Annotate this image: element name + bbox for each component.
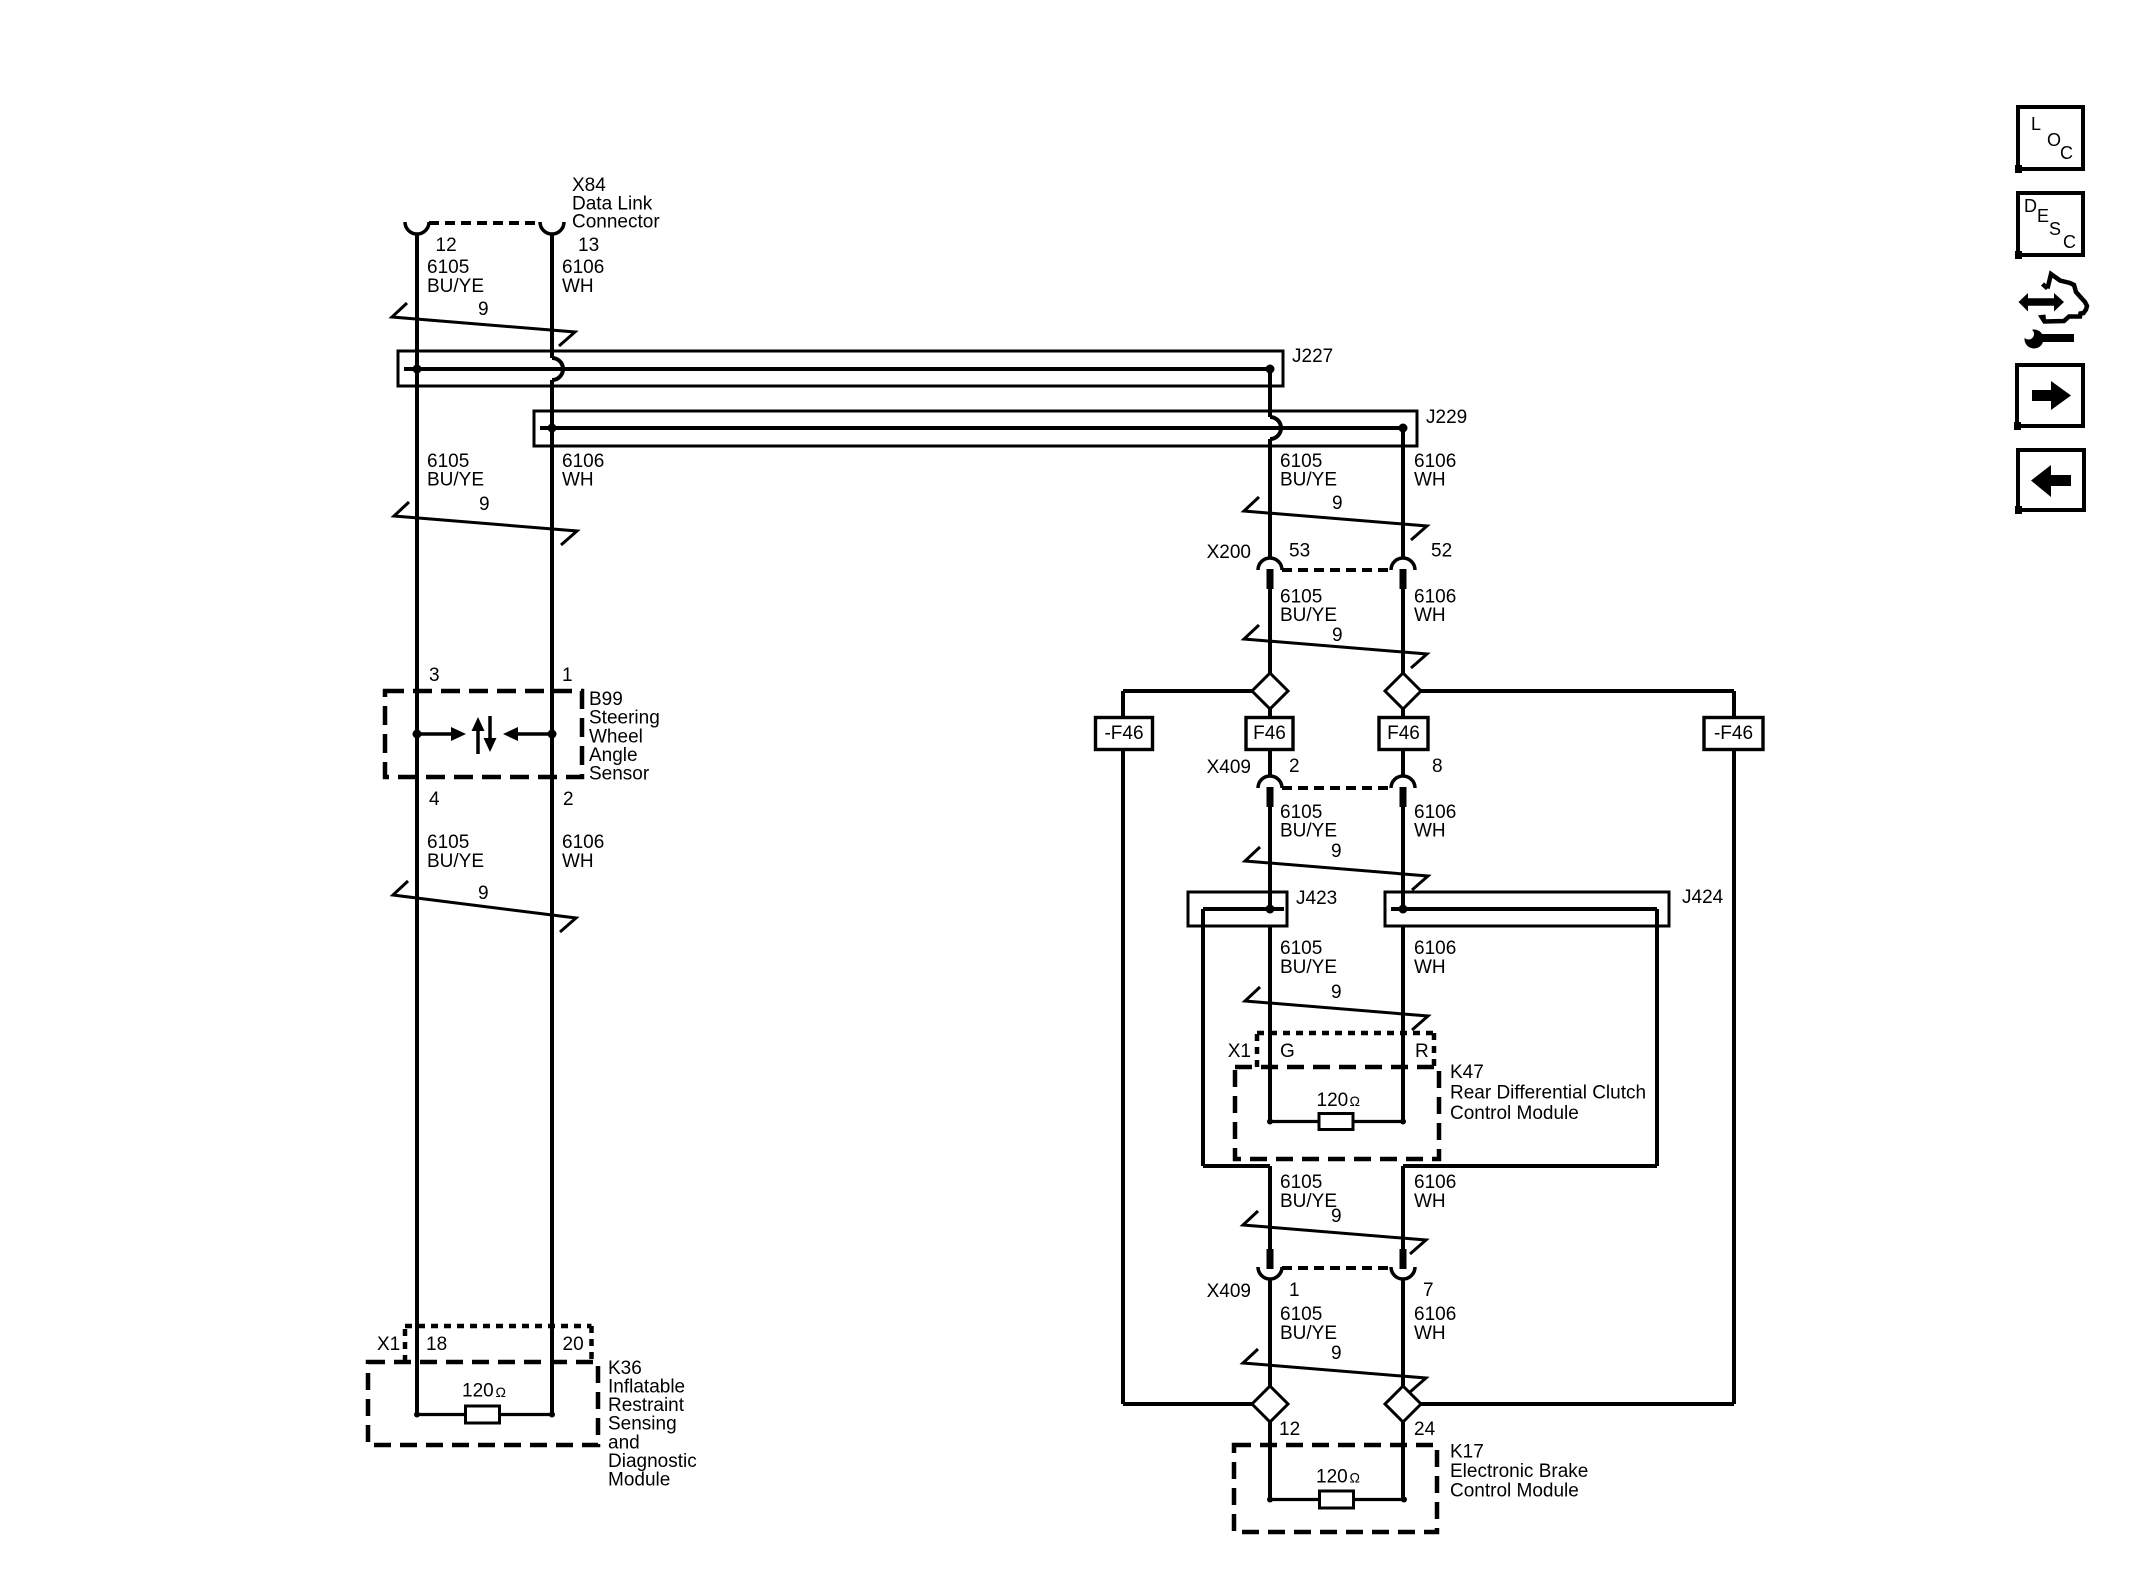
svg-text:8: 8 bbox=[1432, 756, 1443, 777]
svg-text:9: 9 bbox=[479, 494, 490, 515]
svg-text:1: 1 bbox=[1289, 1280, 1300, 1301]
svg-text:9: 9 bbox=[1331, 841, 1342, 862]
svg-text:Control Module: Control Module bbox=[1450, 1103, 1579, 1124]
svg-text:6105: 6105 bbox=[1280, 1304, 1322, 1325]
svg-text:Ω: Ω bbox=[1350, 1093, 1360, 1109]
svg-text:6106: 6106 bbox=[562, 257, 604, 278]
svg-text:WH: WH bbox=[562, 276, 594, 297]
svg-text:20: 20 bbox=[563, 1334, 584, 1355]
svg-text:120: 120 bbox=[462, 1380, 494, 1401]
svg-text:BU/YE: BU/YE bbox=[427, 851, 484, 872]
svg-text:E: E bbox=[2037, 206, 2049, 226]
svg-text:9: 9 bbox=[1331, 1206, 1342, 1227]
svg-text:52: 52 bbox=[1431, 540, 1452, 561]
svg-text:Sensor: Sensor bbox=[589, 764, 650, 785]
svg-text:9: 9 bbox=[478, 299, 489, 320]
svg-text:F46: F46 bbox=[1253, 723, 1286, 744]
svg-text:D: D bbox=[2024, 196, 2037, 216]
svg-text:K17: K17 bbox=[1450, 1441, 1484, 1462]
svg-text:WH: WH bbox=[1414, 1191, 1446, 1212]
svg-text:BU/YE: BU/YE bbox=[1280, 1323, 1337, 1344]
svg-text:Electronic Brake: Electronic Brake bbox=[1450, 1461, 1588, 1482]
svg-text:C: C bbox=[2060, 143, 2073, 163]
svg-text:2: 2 bbox=[1289, 756, 1300, 777]
svg-text:6106: 6106 bbox=[1414, 938, 1456, 959]
svg-text:Connector: Connector bbox=[572, 211, 660, 232]
svg-text:BU/YE: BU/YE bbox=[1280, 957, 1337, 978]
svg-text:120: 120 bbox=[1316, 1466, 1348, 1487]
svg-text:9: 9 bbox=[478, 883, 489, 904]
svg-text:BU/YE: BU/YE bbox=[1280, 605, 1337, 626]
svg-text:Ω: Ω bbox=[1350, 1470, 1360, 1486]
svg-text:X1: X1 bbox=[377, 1334, 400, 1355]
svg-text:6105: 6105 bbox=[427, 832, 469, 853]
svg-text:C: C bbox=[2063, 232, 2076, 252]
svg-text:BU/YE: BU/YE bbox=[1280, 820, 1337, 841]
svg-text:S: S bbox=[2049, 219, 2061, 239]
svg-text:Rear Differential Clutch: Rear Differential Clutch bbox=[1450, 1082, 1646, 1103]
svg-text:6105: 6105 bbox=[1280, 938, 1322, 959]
svg-text:BU/YE: BU/YE bbox=[1280, 1191, 1337, 1212]
svg-text:WH: WH bbox=[562, 851, 594, 872]
svg-text:G: G bbox=[1280, 1041, 1295, 1062]
svg-text:J424: J424 bbox=[1682, 887, 1724, 908]
svg-text:WH: WH bbox=[1414, 957, 1446, 978]
svg-text:6106: 6106 bbox=[562, 832, 604, 853]
svg-text:X1: X1 bbox=[1228, 1041, 1251, 1062]
svg-text:Control Module: Control Module bbox=[1450, 1480, 1579, 1501]
svg-text:X409: X409 bbox=[1207, 1281, 1251, 1302]
svg-text:2: 2 bbox=[563, 789, 574, 810]
svg-text:BU/YE: BU/YE bbox=[427, 469, 484, 490]
svg-text:R: R bbox=[1415, 1041, 1429, 1062]
svg-text:3: 3 bbox=[429, 665, 440, 686]
svg-text:9: 9 bbox=[1332, 625, 1343, 646]
svg-text:Ω: Ω bbox=[496, 1384, 506, 1400]
svg-text:J423: J423 bbox=[1296, 888, 1337, 909]
svg-text:WH: WH bbox=[1414, 1323, 1446, 1344]
svg-text:4: 4 bbox=[429, 789, 440, 810]
svg-text:L: L bbox=[2031, 114, 2041, 134]
svg-text:1: 1 bbox=[562, 665, 573, 686]
svg-text:J229: J229 bbox=[1426, 407, 1467, 428]
svg-text:6106: 6106 bbox=[1414, 1172, 1456, 1193]
svg-text:6105: 6105 bbox=[427, 257, 469, 278]
svg-text:12: 12 bbox=[1279, 1419, 1300, 1440]
svg-text:X409: X409 bbox=[1207, 757, 1251, 778]
svg-text:120: 120 bbox=[1317, 1090, 1349, 1111]
svg-text:9: 9 bbox=[1331, 1343, 1342, 1364]
svg-text:12: 12 bbox=[436, 235, 457, 256]
svg-text:J227: J227 bbox=[1292, 346, 1333, 367]
svg-text:WH: WH bbox=[1414, 820, 1446, 841]
svg-text:53: 53 bbox=[1289, 540, 1310, 561]
svg-text:9: 9 bbox=[1331, 982, 1342, 1003]
svg-text:13: 13 bbox=[578, 235, 599, 256]
svg-text:X200: X200 bbox=[1207, 542, 1251, 563]
svg-text:BU/YE: BU/YE bbox=[427, 276, 484, 297]
svg-text:-F46: -F46 bbox=[1714, 723, 1753, 744]
svg-text:6106: 6106 bbox=[1414, 1304, 1456, 1325]
svg-text:18: 18 bbox=[426, 1334, 447, 1355]
svg-text:9: 9 bbox=[1332, 493, 1343, 514]
svg-text:-F46: -F46 bbox=[1104, 723, 1143, 744]
svg-text:WH: WH bbox=[1414, 605, 1446, 626]
svg-text:K47: K47 bbox=[1450, 1062, 1484, 1083]
svg-text:F46: F46 bbox=[1387, 723, 1420, 744]
svg-text:WH: WH bbox=[1414, 469, 1446, 490]
svg-text:Module: Module bbox=[608, 1470, 670, 1491]
svg-text:7: 7 bbox=[1423, 1280, 1434, 1301]
svg-text:6105: 6105 bbox=[1280, 1172, 1322, 1193]
svg-text:O: O bbox=[2047, 130, 2061, 150]
svg-text:24: 24 bbox=[1414, 1419, 1436, 1440]
svg-text:WH: WH bbox=[562, 469, 594, 490]
svg-text:BU/YE: BU/YE bbox=[1280, 469, 1337, 490]
